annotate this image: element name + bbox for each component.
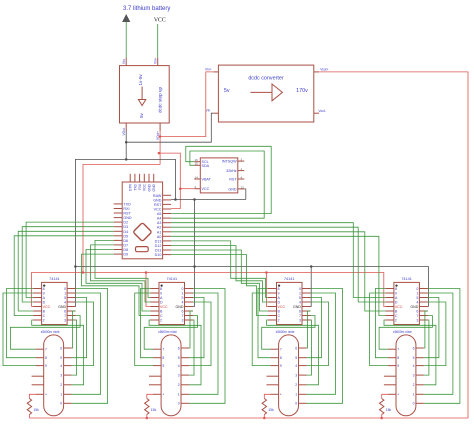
wire IC3 out1 to V3 pin1 <box>307 293 336 394</box>
wire IC4 out0 to V4 pin0 <box>424 289 460 404</box>
svg-text:2: 2 <box>278 319 280 323</box>
svg-text:SDA: SDA <box>202 164 210 168</box>
resistor R3 15k anode <box>262 399 266 415</box>
wire 5V: VOut+ to dcdc VIn+ <box>160 72 213 137</box>
V2 left pin nc <box>149 384 161 386</box>
IC2 right pin 5 <box>185 297 194 299</box>
svg-text:D13: D13 <box>155 239 162 243</box>
IC3 left pin D <box>268 301 277 303</box>
MCU pin A1 <box>163 231 172 233</box>
wire GND up to RTC GND pin <box>244 189 246 200</box>
V1 right pin 1 <box>64 393 72 395</box>
svg-text:GND: GND <box>147 183 151 191</box>
IC1 left pin C <box>33 315 42 317</box>
IC4 right pin 0 <box>419 288 428 290</box>
IC4 right pin 7 <box>419 315 428 317</box>
svg-text:D7: D7 <box>123 243 128 247</box>
wire IC1 out4 to V1 pin4 <box>72 302 94 366</box>
svg-text:6: 6 <box>413 346 415 350</box>
V3 right pin 3 <box>299 374 307 376</box>
wire R3 to 170V rail <box>263 415 265 419</box>
svg-text:VIn: VIn <box>122 59 126 64</box>
svg-text:0: 0 <box>295 402 297 406</box>
svg-text:A: A <box>278 296 281 300</box>
svg-text:GND: GND <box>152 183 156 191</box>
wire 5V to MCU VCC <box>159 153 180 208</box>
svg-text:VIn: VIn <box>206 109 211 113</box>
wire D7 to IC2 input <box>91 245 151 302</box>
V1 left pin 8 <box>36 357 44 359</box>
svg-text:3: 3 <box>182 319 184 323</box>
svg-text:5v: 5v <box>139 112 144 118</box>
svg-text:4: 4 <box>295 364 297 368</box>
wire IC4 out9 to V4 pin9 <box>370 293 388 366</box>
svg-text:GND: GND <box>176 305 184 309</box>
V3 right pin 0 <box>299 402 307 404</box>
svg-text:+: + <box>397 393 399 397</box>
V4 right pin 1 <box>416 393 424 395</box>
svg-text:VOut: VOut <box>122 128 126 135</box>
supply arrow symbol <box>122 14 130 22</box>
svg-text:RST: RST <box>154 203 162 207</box>
V1 left pin + <box>36 393 44 395</box>
junction R2 on 170V rail <box>146 417 149 420</box>
svg-text:B: B <box>160 310 163 314</box>
svg-text:1: 1 <box>64 292 66 296</box>
svg-text:2: 2 <box>43 319 45 323</box>
MCU pin D4 <box>114 230 123 232</box>
svg-text:15k: 15k <box>151 408 157 412</box>
svg-text:9: 9 <box>280 364 282 368</box>
svg-text:7: 7 <box>416 314 418 318</box>
svg-text:0: 0 <box>182 287 184 291</box>
IC4 left pin D <box>385 301 394 303</box>
wire IC3 out2 to V3 pin2 <box>267 320 319 385</box>
svg-text:1v-5v: 1v-5v <box>138 74 143 86</box>
wire GND to MCU GND row <box>126 159 175 199</box>
wire IC3 out9 to V3 pin9 <box>252 293 270 366</box>
svg-text:A1: A1 <box>157 230 162 234</box>
svg-text:INTSQW: INTSQW <box>222 160 237 164</box>
wire 5V vertical branch <box>159 137 161 165</box>
RTC pin 1 32kHz <box>238 170 245 172</box>
svg-text:15k: 15k <box>268 408 274 412</box>
wire SCL net (A5 to RTC SCL) <box>171 146 271 213</box>
svg-text:D5: D5 <box>123 234 128 238</box>
svg-text:D12: D12 <box>155 244 162 248</box>
V1 right pin 6 <box>64 347 72 349</box>
IC1 left pin 8 <box>33 288 42 290</box>
svg-text:3: 3 <box>64 319 66 323</box>
wire IC4 out1 to V4 pin1 <box>424 293 453 394</box>
junction GND split <box>125 158 128 161</box>
svg-text:A: A <box>395 296 398 300</box>
svg-text:D: D <box>395 301 398 305</box>
svg-text:VIn+: VIn+ <box>205 67 212 71</box>
svg-text:TXD: TXD <box>123 202 131 206</box>
IC4 left pin 9 <box>385 292 394 294</box>
wire D9 to IC2 input <box>82 254 151 315</box>
IC4 right pin GND <box>419 306 428 308</box>
svg-text:6: 6 <box>60 346 62 350</box>
wire D8 to IC2 input <box>86 250 151 312</box>
wire D13 to IC3 input <box>171 241 268 298</box>
MCU pin RST <box>114 212 123 214</box>
svg-text:GND: GND <box>123 216 132 220</box>
V4 left pin nc <box>384 384 396 386</box>
wire IC1 out8 to V1 pin8 <box>7 289 36 358</box>
svg-text:74141: 74141 <box>401 277 412 281</box>
svg-text:9: 9 <box>162 364 164 368</box>
svg-text:5: 5 <box>178 356 180 360</box>
IC1 right pin 1 <box>67 292 76 294</box>
RTC pin 3 INTSQW <box>238 160 245 162</box>
wire IC4 out7 to V4 pin7 <box>379 316 432 350</box>
svg-text:A4: A4 <box>157 217 162 221</box>
svg-text:3: 3 <box>416 319 418 323</box>
svg-text:D6: D6 <box>123 239 128 243</box>
V1 right pin 2 <box>64 384 72 386</box>
svg-text:D10: D10 <box>155 253 162 257</box>
MCU pin D8 <box>114 249 123 251</box>
IC1 left pin 2 <box>33 319 42 321</box>
IC4 left pin A <box>385 297 394 299</box>
dc/dc step up converter U1 <box>120 66 170 123</box>
svg-text:8: 8 <box>162 356 164 360</box>
wire IC2 out8 to V2 pin8 <box>141 289 154 358</box>
wire VCC drop chip3 <box>266 273 268 307</box>
svg-text:32kHz: 32kHz <box>226 169 237 173</box>
RTC pin 2 VCC <box>194 188 200 190</box>
svg-text:4: 4 <box>299 301 301 305</box>
wire D4 to IC1 input <box>18 231 114 311</box>
svg-text:8: 8 <box>45 356 47 360</box>
V1 right pin 5 <box>64 357 72 359</box>
svg-text:GND: GND <box>58 305 66 309</box>
svg-text:GND: GND <box>228 187 237 191</box>
MCU pin TXD <box>114 203 123 205</box>
svg-text:A: A <box>160 296 163 300</box>
svg-text:Vout-: Vout- <box>318 109 325 113</box>
V4 left pin 8 <box>388 357 396 359</box>
svg-text:9: 9 <box>397 364 399 368</box>
svg-text:0: 0 <box>413 402 415 406</box>
svg-text:VOut+: VOut+ <box>156 131 160 140</box>
junction R4 on 170V rail <box>380 417 383 420</box>
wire IC2 out5 to V2 pin5 <box>189 298 204 358</box>
IC3 left pin 8 <box>268 288 277 290</box>
svg-text:8: 8 <box>280 356 282 360</box>
junction VCC rail chip3 <box>265 271 268 274</box>
wire IC1 out0 to V1 pin0 <box>72 289 108 404</box>
IC2 left pin 2 <box>151 319 160 321</box>
wire 5V to RTC VCC <box>180 188 194 190</box>
svg-text:4: 4 <box>64 301 66 305</box>
IC2 right pin GND <box>185 306 194 308</box>
wire IC4 out4 to V4 pin4 <box>424 302 446 366</box>
svg-text:5: 5 <box>64 296 66 300</box>
MCU pin RST <box>163 203 172 205</box>
svg-text:B: B <box>278 310 281 314</box>
IC3 right pin 5 <box>302 297 311 299</box>
svg-text:3: 3 <box>413 374 415 378</box>
svg-text:5: 5 <box>60 356 62 360</box>
V2 left pin 7 <box>153 348 161 350</box>
wire R4 to 170V rail <box>381 415 383 419</box>
svg-text:2: 2 <box>395 319 397 323</box>
MCU pin A0 <box>163 235 172 237</box>
svg-text:VBAT: VBAT <box>202 178 212 182</box>
V4 right pin 6 <box>416 347 424 349</box>
IC2 pin-1 mark <box>161 285 163 287</box>
svg-text:RAW: RAW <box>153 194 162 198</box>
svg-text:VCC: VCC <box>154 18 166 24</box>
wire A2 to IC4 input <box>171 227 385 302</box>
V4 right pin 3 <box>416 374 424 376</box>
svg-text:5: 5 <box>299 296 301 300</box>
svg-text:9: 9 <box>395 292 397 296</box>
wire IC2 out6 to V2 pin6 <box>189 311 193 348</box>
svg-text:A: A <box>43 296 46 300</box>
IC4 right pin 6 <box>419 310 428 312</box>
IC1 left pin D <box>33 301 42 303</box>
IC4 right pin 1 <box>419 292 428 294</box>
RTC pin 15 SDA <box>194 164 200 166</box>
junction 5V split <box>158 152 161 155</box>
wire anode to R3 <box>264 394 270 398</box>
junction VCC rail feed <box>82 271 85 274</box>
svg-text:3: 3 <box>295 374 297 378</box>
pin VIn (step-up) <box>125 58 127 66</box>
svg-text:0: 0 <box>178 402 180 406</box>
svg-text:z5600m nixie: z5600m nixie <box>393 330 412 334</box>
svg-text:5: 5 <box>295 356 297 360</box>
svg-text:7: 7 <box>397 348 399 352</box>
wire anode to R1 <box>29 394 35 398</box>
MCU pin GND <box>114 217 123 219</box>
resistor R2 15k anode <box>145 399 149 415</box>
V3 right pin 5 <box>299 357 307 359</box>
svg-text:GND: GND <box>153 198 162 202</box>
wire IC4 out5 to V4 pin5 <box>424 298 439 358</box>
svg-text:7: 7 <box>299 314 301 318</box>
V4 left pin nc <box>384 375 396 377</box>
junction GND at VOut <box>125 141 128 144</box>
svg-text:VIn+: VIn+ <box>154 57 158 64</box>
V3 right pin 1 <box>299 393 307 395</box>
svg-text:8: 8 <box>395 287 397 291</box>
pin VOut+ (step-up) <box>159 123 161 131</box>
V3 right pin 2 <box>299 384 307 386</box>
svg-text:5: 5 <box>416 296 418 300</box>
svg-text:7: 7 <box>162 348 164 352</box>
svg-text:VCC: VCC <box>154 208 162 212</box>
svg-text:D11: D11 <box>155 249 162 253</box>
wire R1 to 170V rail <box>28 415 30 419</box>
V2 right pin 6 <box>181 347 189 349</box>
V2 left pin nc <box>149 375 161 377</box>
svg-text:15k: 15k <box>386 408 392 412</box>
wire GND rail for 74141 drivers <box>75 267 428 307</box>
MCU pin D3 <box>114 226 123 228</box>
svg-text:VCC: VCC <box>202 187 210 191</box>
IC4 left pin 8 <box>385 288 394 290</box>
MCU pin A2 <box>163 226 172 228</box>
svg-text:A0: A0 <box>157 235 162 239</box>
wire IC3 out4 to V3 pin4 <box>307 302 329 366</box>
svg-text:2: 2 <box>178 383 180 387</box>
wire anode to R4 <box>382 394 388 398</box>
RTC pin 14 VBAT <box>194 178 200 180</box>
wire IC3 out3 to V3 pin3 <box>307 320 312 375</box>
MCU pin D5 <box>114 235 123 237</box>
svg-text:C: C <box>278 314 281 318</box>
nixie tube V3 <box>279 335 299 416</box>
wire VCC into chip1 <box>32 306 34 308</box>
svg-text:B: B <box>43 310 46 314</box>
MCU top pin VCC <box>143 174 145 182</box>
svg-text:6: 6 <box>64 310 66 314</box>
svg-text:6: 6 <box>182 310 184 314</box>
resistor R4 15k anode <box>380 399 384 415</box>
V3 left pin 8 <box>271 357 279 359</box>
V3 left pin + <box>271 393 279 395</box>
IC3 left pin 9 <box>268 292 277 294</box>
svg-text:8: 8 <box>160 287 162 291</box>
resistor R1 15k anode <box>27 399 31 415</box>
svg-text:TXD: TXD <box>133 183 137 190</box>
svg-text:2: 2 <box>295 383 297 387</box>
IC4 right pin 5 <box>419 297 428 299</box>
IC3 left pin C <box>268 315 277 317</box>
pin Vout- (dcdc) <box>314 112 319 114</box>
MCU pin D12 <box>163 245 172 247</box>
V2 right pin 0 <box>181 402 189 404</box>
svg-text:1: 1 <box>178 393 180 397</box>
MCU top pin GND <box>148 174 150 182</box>
MCU top pin DTR <box>129 174 131 182</box>
V4 left pin + <box>388 393 396 395</box>
dcdc converter U2 (5v to 170v) <box>218 65 313 122</box>
svg-text:4: 4 <box>413 364 415 368</box>
IC2 left pin 8 <box>151 288 160 290</box>
wire D3 to IC1 input <box>22 227 114 302</box>
svg-text:0: 0 <box>299 287 301 291</box>
wire IC1 out2 to V1 pin2 <box>32 320 84 385</box>
MCU pin D9 <box>114 253 123 255</box>
wire IC1 out9 to V1 pin9 <box>3 293 36 366</box>
svg-text:VCC: VCC <box>278 305 286 309</box>
converter arrow symbol <box>251 84 283 101</box>
nixie tube V2 <box>161 335 181 416</box>
svg-text:VCC: VCC <box>43 305 51 309</box>
svg-text:VCC: VCC <box>143 183 147 191</box>
wire IC3 out7 to V3 pin7 <box>262 316 315 350</box>
wire A0 to IC4 input <box>171 236 385 315</box>
svg-text:dcdc step up: dcdc step up <box>157 87 162 113</box>
svg-text:2: 2 <box>60 383 62 387</box>
svg-text:7: 7 <box>45 348 47 352</box>
IC1 left pin A <box>33 297 42 299</box>
svg-text:C: C <box>395 314 398 318</box>
svg-text:5v: 5v <box>224 88 230 94</box>
svg-text:8: 8 <box>43 287 45 291</box>
wire IC3 out5 to V3 pin5 <box>307 298 322 358</box>
wire GND drop chip3 <box>310 267 313 307</box>
IC1 right pin 4 <box>67 301 76 303</box>
svg-text:7: 7 <box>182 314 184 318</box>
IC3 pin-1 mark <box>278 285 280 287</box>
MCU top pin RXI <box>139 174 141 182</box>
V1 right pin 4 <box>64 365 72 367</box>
junction GND rail chip2 <box>193 265 196 268</box>
wire IC2 out0 to V2 pin0 <box>189 289 225 404</box>
IC3 left pin 2 <box>268 319 277 321</box>
svg-text:3.7 lithium battery: 3.7 lithium battery <box>123 6 170 12</box>
svg-text:5: 5 <box>413 356 415 360</box>
junction GND at MCU GND <box>174 198 177 201</box>
nixie tube V4 <box>396 335 416 416</box>
V3 left pin nc <box>267 375 279 377</box>
wire GND feed left to rail and 74141 #1 GND <box>75 159 126 306</box>
junction GND feed to rail <box>193 198 196 201</box>
svg-text:z5600m nixie: z5600m nixie <box>276 330 295 334</box>
IC3 right pin 4 <box>302 301 311 303</box>
wire D2 to IC1 input <box>26 222 114 297</box>
nixie tube V1 <box>44 335 64 416</box>
wire IC2 out2 to V2 pin2 <box>149 320 201 385</box>
V2 right pin 2 <box>181 384 189 386</box>
MCU U4 arduino pro mini <box>122 182 162 259</box>
wire IC4 out6 to V4 pin6 <box>424 311 428 348</box>
svg-text:2: 2 <box>413 383 415 387</box>
IC4 right pin 3 <box>419 319 428 321</box>
svg-text:7: 7 <box>64 314 66 318</box>
wire anode to R2 <box>147 394 153 398</box>
wire IC2 out1 to V2 pin1 <box>189 293 218 394</box>
svg-text:0: 0 <box>64 287 66 291</box>
V1 left pin nc <box>32 375 44 377</box>
V2 right pin 1 <box>181 393 189 395</box>
MCU pin D6 <box>114 239 123 241</box>
MCU pin VCC <box>163 208 172 210</box>
svg-text:A3: A3 <box>157 221 162 225</box>
wire VCC rail for 74141 drivers <box>32 273 386 307</box>
MCU pin D7 <box>114 244 123 246</box>
MCU diamond logo <box>133 223 152 242</box>
V3 left pin nc <box>267 384 279 386</box>
svg-text:7: 7 <box>280 348 282 352</box>
V4 right pin 5 <box>416 357 424 359</box>
svg-text:0: 0 <box>60 402 62 406</box>
wire SDA net (A4 to RTC SDA) <box>171 151 264 218</box>
svg-text:D: D <box>160 301 163 305</box>
svg-text:1: 1 <box>413 393 415 397</box>
IC4 left pin B <box>385 310 394 312</box>
step-up arrow symbol <box>141 87 143 100</box>
svg-text:4: 4 <box>416 301 418 305</box>
MCU pin A3 <box>163 222 172 224</box>
wire IC3 out0 to V3 pin0 <box>307 289 343 404</box>
IC2 left pin A <box>151 297 160 299</box>
IC4 left pin 2 <box>385 319 394 321</box>
V2 right pin 5 <box>181 357 189 359</box>
svg-text:D4: D4 <box>123 230 128 234</box>
wire A3 to IC4 input <box>171 223 385 298</box>
V2 left pin 8 <box>153 357 161 359</box>
svg-text:1: 1 <box>299 292 301 296</box>
V3 left pin 9 <box>271 365 279 367</box>
